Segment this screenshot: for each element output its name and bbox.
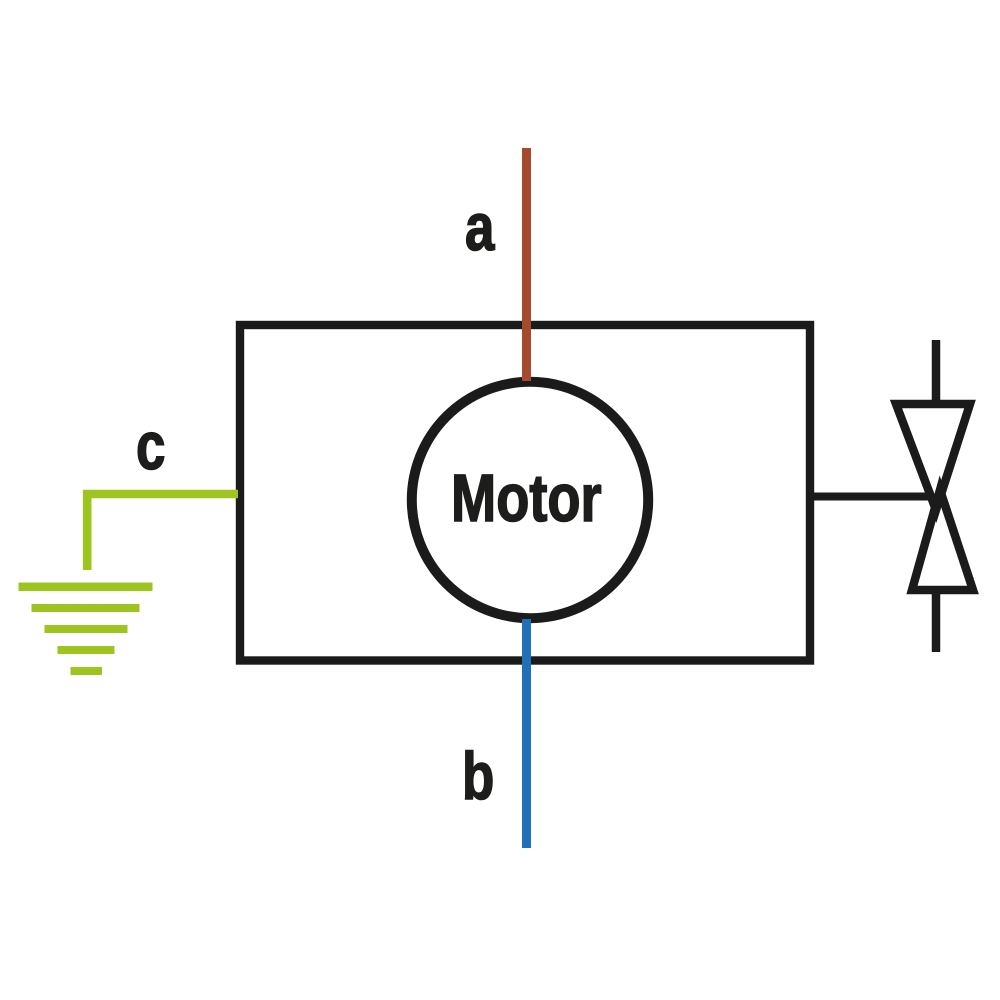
suppressor diode V1 top lead [932, 340, 941, 404]
ground symbol bar 2 [32, 604, 140, 612]
suppressor diode V1 upper triangle [896, 404, 970, 510]
svg-text:c: c [136, 408, 165, 483]
ground symbol bar 5 [71, 667, 103, 675]
svg-text:b: b [462, 738, 494, 813]
suppressor diode V1 lower triangle [912, 490, 973, 590]
svg-text:Motor: Motor [451, 461, 602, 536]
ground symbol bar 4 [58, 646, 115, 654]
wire a (red supply wire) [522, 148, 531, 381]
svg-text:a: a [465, 189, 495, 264]
wire c (green ground wire) [87, 494, 238, 570]
ground symbol bar 1 [19, 583, 153, 592]
motor M1 (circle) [412, 382, 648, 618]
wire b (blue supply wire) [522, 619, 531, 848]
motor housing box [240, 325, 810, 661]
suppressor diode V1 bottom lead [932, 590, 941, 652]
wire to suppressor diode [814, 493, 929, 501]
ground symbol bar 3 [45, 625, 128, 633]
